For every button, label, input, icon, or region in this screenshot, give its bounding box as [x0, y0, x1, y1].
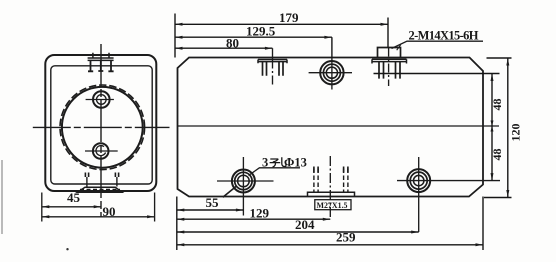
top port inner circle [326, 67, 337, 78]
filler fitting centerline (hidden) [272, 60, 274, 88]
upper hole h-centerline [86, 99, 114, 101]
bottom left port inner circle [238, 175, 250, 187]
label underline + leader [249, 168, 301, 176]
filler fitting centerline [272, 48, 274, 59]
arrows dim 120 [506, 58, 509, 66]
top filler bolt stems [91, 60, 112, 71]
svg-text:80: 80 [226, 36, 239, 51]
top port centerlines [309, 72, 352, 74]
svg-text:48: 48 [490, 99, 504, 111]
tank outer shell (rounded rect) [45, 55, 156, 191]
120 dim line vertical [507, 58, 509, 198]
large inspection circle (dashed outer) [60, 85, 145, 170]
bottom right port circles [407, 169, 430, 192]
svg-text:120: 120 [509, 124, 523, 142]
label underline + leader [392, 41, 484, 48]
left extension line top [174, 14, 176, 58]
arrows dim 55 [177, 209, 185, 212]
bottom right port h-centerline / 48 extension [397, 180, 500, 182]
arrow 45 right [94, 205, 102, 208]
bottom left port circles [232, 170, 255, 193]
arrows dim 80 [175, 47, 183, 50]
top filler bolt feet [88, 70, 114, 72]
dimension arrows right view [175, 23, 509, 247]
left view dim arrows [42, 205, 155, 218]
top filler ticks above plate [93, 53, 109, 58]
bottom right port middle circle [410, 172, 427, 189]
bottom drain bolt shafts [87, 177, 117, 187]
right edge extension down [482, 197, 484, 251]
arrow 90 left [42, 215, 50, 218]
M27 drain hidden stems [314, 169, 348, 193]
M14 fitting flange [372, 59, 407, 63]
top port middle circle [323, 64, 340, 81]
svg-text:2-M14X15-6H: 2-M14X15-6H [409, 29, 479, 43]
top port v-centerline [331, 57, 333, 90]
top port circles [320, 61, 343, 84]
ext 179 right [387, 18, 389, 48]
drain boss hidden line [80, 188, 120, 190]
svg-text:45: 45 [67, 190, 81, 205]
large inspection circle (solid inner) [62, 87, 143, 168]
svg-text:129: 129 [250, 205, 270, 220]
120 bottom extension [484, 197, 512, 199]
dim 259 line [177, 244, 483, 246]
arrows dim 129 [177, 218, 185, 221]
arrows dim 48 ends [491, 74, 494, 82]
lower small hole [93, 143, 109, 159]
dim 129 line [177, 218, 330, 220]
diagonal mark at left port [223, 186, 237, 197]
scan artifacts [1, 160, 3, 234]
dim 45 extension lines [42, 193, 155, 222]
M27 stem top ticks [314, 167, 348, 173]
120 top extension [487, 57, 512, 59]
arrow 90 right [147, 215, 155, 218]
48 dim line vertical [491, 74, 493, 181]
bottom drain boss (trapezoid) [78, 187, 123, 192]
dim 55 line [177, 209, 244, 211]
arrows dim 48 middle [491, 121, 494, 132]
M14 fitting boss on top (at 179) [378, 48, 401, 58]
bottom left port v-centerline [242, 157, 244, 216]
top filler fitting (side view) [88, 58, 114, 60]
arrow 45 left [42, 205, 50, 208]
dim 90 line [42, 216, 155, 218]
dim 204 line [177, 231, 419, 233]
svg-text:M27X1.5: M27X1.5 [317, 201, 348, 210]
dim 45 line [42, 206, 101, 208]
svg-text:55: 55 [206, 195, 220, 210]
main horizontal centerline [33, 126, 170, 128]
left extension line bottom [176, 197, 178, 251]
M14 fitting bolt stems [379, 62, 400, 79]
dim 129.5 line [175, 36, 332, 38]
M27 plate [308, 192, 355, 196]
page edge artifact [1, 160, 3, 234]
svg-text:179: 179 [279, 10, 299, 25]
bottom right port inner circle [414, 175, 424, 185]
M14 fitting centerline [388, 48, 390, 87]
filler fitting on top (at 80) [258, 60, 287, 64]
svg-text:129.5: 129.5 [246, 24, 276, 39]
bottom left port centerlines [217, 180, 274, 182]
upper small hole inner circle [97, 95, 107, 105]
bottom right port centerline vertical / 204 extension [418, 157, 420, 232]
leader tick [397, 45, 401, 51]
svg-text:90: 90 [103, 204, 116, 219]
dim 179 line [175, 23, 388, 25]
ext 129.5 [331, 37, 333, 58]
hanzi kong [270, 157, 286, 167]
filler fitting bolt stems [263, 62, 284, 76]
arrows dim 259 [177, 243, 185, 246]
upper small hole [93, 91, 110, 108]
dim 80 line [175, 47, 272, 49]
arrows dim 204 [177, 231, 185, 234]
svg-text:204: 204 [295, 217, 315, 232]
arrows dim 129.5 [175, 36, 183, 39]
48 extension upper [374, 73, 500, 75]
lower small hole inner arc [96, 146, 106, 156]
arrows dim 179 [175, 23, 183, 26]
svg-text:48: 48 [490, 149, 504, 161]
bottom drain bolt stems [85, 173, 118, 178]
mid horizontal line [178, 125, 500, 127]
bottom left port middle circle [235, 172, 252, 189]
tank inner wall line [51, 66, 152, 184]
speck [66, 248, 68, 250]
vertical centerline [100, 44, 102, 218]
svg-text:259: 259 [336, 230, 356, 245]
M27 label box [315, 200, 351, 210]
M27 centerline [329, 156, 331, 219]
tank outline with chamfered corners [178, 58, 484, 197]
lower hole h-centerline [85, 150, 118, 152]
